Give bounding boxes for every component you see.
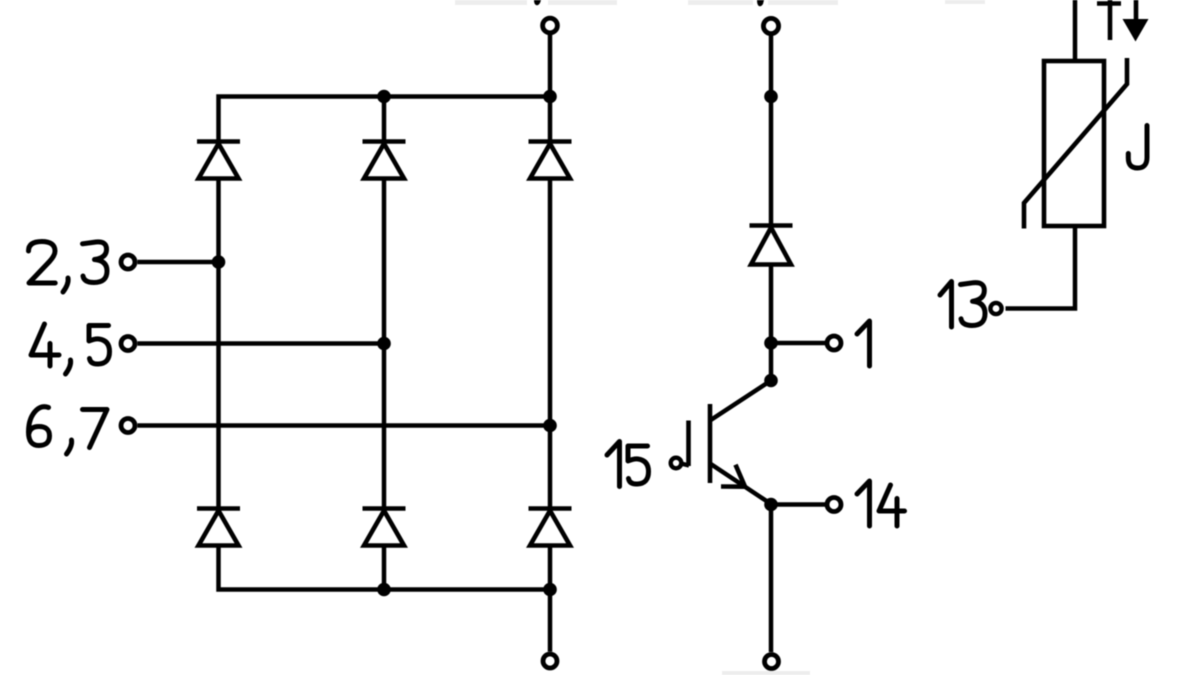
diode D1 (upper, leg 1) bbox=[197, 142, 240, 179]
terminal circle: terminal 1 bbox=[827, 336, 841, 350]
node: input 2,3 / leg 1 junction bbox=[212, 255, 226, 269]
wire: AC input 4,5 bbox=[138, 341, 385, 346]
wire: bridge leg 2 lower (D5 to bottom bus) bbox=[382, 546, 387, 590]
label 14 bbox=[857, 481, 905, 526]
label 13 bbox=[940, 282, 985, 328]
node: chopper top junction bbox=[764, 90, 778, 104]
node: bottom bus / leg 3 junction bbox=[543, 583, 557, 597]
node: bottom bus / leg 2 junction bbox=[377, 583, 391, 597]
wire: chopper branch upper bbox=[769, 36, 774, 226]
label T (cut off at top edge) bbox=[1108, 0, 1113, 40]
wire: gate lead to terminal 15 bbox=[681, 464, 689, 466]
wire: bridge leg 1 middle (D1 to D4) bbox=[216, 179, 221, 509]
wire: bridge leg 2 middle (D2 to D5) bbox=[382, 179, 387, 509]
label 4,5 bbox=[31, 324, 110, 374]
node: input 6,7 / leg 3 junction bbox=[543, 419, 557, 433]
transistor Q1 body bar bbox=[708, 404, 713, 483]
wire: bridge leg 2 upper (bus to D2) bbox=[382, 97, 387, 142]
diode D6 (lower, leg 3) bbox=[529, 509, 572, 546]
thermistor R1 body bbox=[1044, 61, 1104, 226]
terminal circle: terminal 14 bbox=[827, 498, 841, 512]
terminal circle: input 4,5 bbox=[121, 337, 135, 351]
node: emitter junction bbox=[764, 498, 778, 512]
label 15 bbox=[607, 442, 649, 487]
label J (thermistor temperature symbol) bbox=[1128, 126, 1147, 169]
wire: thermistor top lead bbox=[1073, 0, 1078, 61]
diode D2 (upper, leg 2) bbox=[363, 142, 406, 179]
terminal circle: input 6,7 bbox=[121, 419, 135, 433]
wire: emitter node to bottom terminal bbox=[769, 505, 774, 653]
wire: top bus of rectifier bridge and leg 1 upper bbox=[219, 97, 551, 142]
terminal circle: terminal 13 bbox=[990, 303, 1001, 314]
node: input 4,5 / leg 2 junction bbox=[377, 337, 391, 351]
wire: D7 cathode to collector node bbox=[769, 265, 774, 381]
wire: bridge leg 1 lower and bottom bus bbox=[219, 546, 551, 590]
wire: stub to terminal 1 bbox=[771, 341, 825, 346]
terminal circle: gate terminal 15 bbox=[671, 458, 682, 469]
wire: bridge leg 3 lower (D6 to bottom terminal) bbox=[548, 546, 553, 652]
diode D3 (upper, leg 3) bbox=[529, 142, 572, 179]
wire: stub to terminal 14 bbox=[771, 502, 826, 507]
node: top bus / leg 2 junction bbox=[377, 90, 391, 104]
terminal circle: chopper top bbox=[763, 18, 778, 33]
label 2,3 bbox=[29, 242, 108, 293]
terminal circle: bridge + top bbox=[543, 18, 558, 33]
thermistor R1 diagonal stroke bbox=[1024, 58, 1127, 229]
node: collector junction bbox=[764, 374, 778, 388]
diode D7 (chopper series diode) bbox=[750, 226, 793, 265]
arrow (temperature down arrow) bbox=[1134, 0, 1139, 22]
label 6,7 bbox=[29, 407, 108, 454]
comma fragment of cut-off label above chopper bbox=[757, 0, 764, 6]
node: top bus / leg 3 junction bbox=[543, 90, 557, 104]
label 1 bbox=[857, 321, 870, 366]
wire: AC input 6,7 bbox=[138, 423, 551, 428]
wire: bridge leg 3 from top terminal bbox=[548, 35, 553, 142]
diode D4 (lower, leg 1) bbox=[197, 509, 240, 546]
terminal circle: bridge - bottom bbox=[543, 654, 557, 668]
wire: thermistor bottom lead bbox=[1006, 226, 1076, 309]
node: terminal 1 junction bbox=[764, 336, 778, 350]
transistor Q1 collector lead bbox=[710, 381, 771, 421]
transistor Q1 gate bar bbox=[686, 421, 691, 467]
terminal circle: chopper bottom bbox=[765, 655, 779, 669]
terminal circle: input 2,3 bbox=[121, 255, 135, 269]
comma fragment of cut-off label above bridge bbox=[534, 0, 541, 5]
faint remnants of cropped labels along top edge bbox=[455, 0, 527, 5]
diode D5 (lower, leg 2) bbox=[363, 509, 406, 546]
transistor Q1 emitter lead bbox=[710, 464, 771, 505]
faint remnant of cropped label along bottom edge bbox=[722, 671, 810, 675]
wire: bridge leg 3 middle (D3 to D6) bbox=[548, 179, 553, 509]
wire: AC input 2,3 bbox=[138, 260, 219, 265]
transistor Q1 emitter arrow bbox=[721, 465, 745, 487]
